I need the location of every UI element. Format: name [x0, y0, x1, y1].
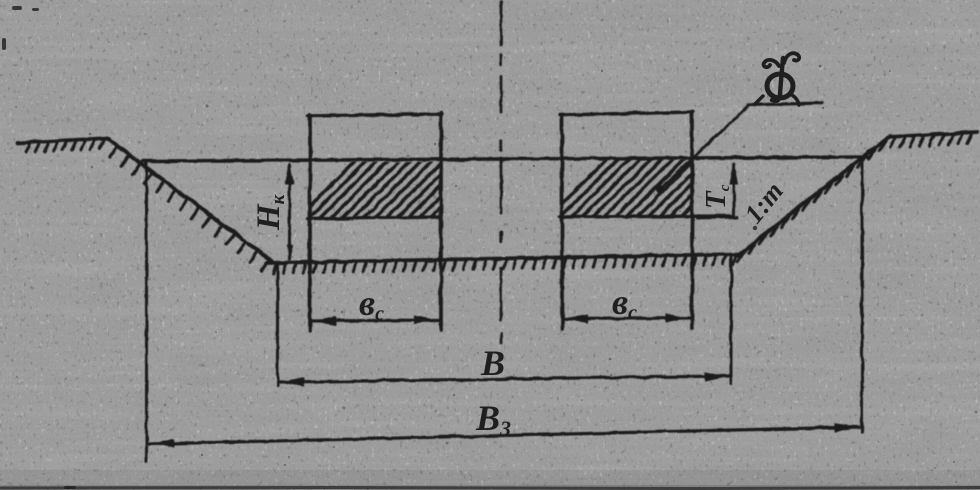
foundation left: right side [439, 113, 443, 330]
right slope line [737, 136, 890, 256]
dimension Tc foot [697, 217, 737, 218]
dimension Hk line [288, 165, 291, 259]
foundation right: left side [560, 115, 564, 329]
leader diagonal [660, 106, 748, 189]
foundation left: left side [308, 115, 312, 331]
dimension Tc line [733, 165, 736, 217]
foundation right: hatch band bottom [560, 216, 731, 217]
foundation left: hatching [296, 158, 523, 220]
foundation right: hatching [548, 156, 775, 218]
ground surface line right [888, 132, 977, 137]
bc-left arrow left [313, 316, 336, 325]
left slope line [107, 138, 273, 262]
dimension B arrow left [281, 377, 304, 386]
bottom hatch ticks [273, 264, 276, 274]
right slope hatch ticks [738, 252, 745, 262]
dimension Hk arrow up [285, 162, 294, 185]
foundation right: right side [690, 112, 694, 328]
dimension B3 arrow right [835, 423, 858, 432]
leader horizontal underline [748, 103, 822, 105]
left slope hatch ticks [110, 148, 117, 158]
excavation bottom line [266, 254, 740, 263]
leader dot on foundation [656, 185, 664, 193]
ground hatch ticks left [26, 143, 31, 153]
bc-left arrow right [414, 315, 437, 324]
bc-right arrow right [665, 313, 688, 322]
ground hatch ticks right [891, 138, 896, 148]
dimension B3 line [149, 427, 859, 444]
centerline axis [500, 2, 503, 343]
dimension B3 extension left [145, 162, 148, 461]
dimension B line [280, 376, 729, 382]
dimension B3 arrow left [151, 439, 174, 448]
dimension Hk arrow down [286, 245, 292, 261]
ground level line across excavation [143, 157, 867, 161]
ground surface line left [18, 138, 109, 143]
foundation left: hatch band bottom [308, 217, 441, 219]
foundation left: top [308, 114, 442, 116]
dimension bc-right line [563, 318, 690, 319]
dimension B extension left [276, 263, 279, 386]
dimension Tc arrow up [729, 162, 738, 185]
foundation right: top [560, 112, 693, 115]
bc-right arrow left [565, 314, 588, 323]
scan edge bottom [0, 485, 980, 490]
foundation symbol (leader label) [755, 53, 799, 105]
dimension B3 extension right [861, 159, 864, 432]
dimension B arrow right [705, 372, 728, 381]
dimension B extension right [730, 257, 733, 383]
svg-text:B: B [480, 343, 505, 383]
dimension bc-left line [311, 320, 439, 321]
